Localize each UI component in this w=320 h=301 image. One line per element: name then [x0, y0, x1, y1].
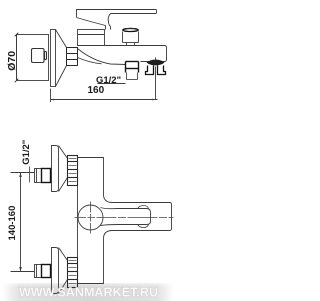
dimension Ø70 arrowheads [15, 33, 19, 83]
union nut (side) [67, 48, 78, 66]
dimension 140-160 [11, 173, 35, 272]
lens detail bottom [138, 225, 149, 228]
lever handle (side) [77, 10, 157, 30]
hose line [155, 67, 157, 100]
diverter knob on body [123, 28, 139, 45]
extension line to G1/2 label [29, 167, 31, 183]
lever housing outer (front) [104, 195, 172, 239]
top union cone [59, 146, 68, 192]
centerline horizontal [75, 217, 174, 219]
top union ribbed nut [68, 156, 78, 186]
watermark band background [2, 283, 174, 301]
lever inner shape (front) [101, 208, 151, 226]
bottom union cone [59, 248, 68, 294]
dimension Ø70 line with arrows [16, 35, 18, 81]
shower outlet stub G1/2 [126, 62, 139, 73]
escutcheon face plate (side) [51, 30, 56, 87]
top union thread block [35, 169, 51, 183]
cone from plate to nut [56, 30, 67, 87]
lens detail top [138, 206, 149, 209]
inlet square on escutcheon [32, 49, 47, 63]
hose coupling lens [147, 60, 165, 66]
svg-text:G1/2": G1/2" [21, 140, 32, 165]
bottom union ribbed nut [68, 258, 78, 288]
handle boss circle [78, 205, 103, 230]
svg-text:160: 160 [88, 85, 105, 96]
bottom union thread block [35, 265, 51, 278]
svg-text:WWW.SANMARKET.RU: WWW.SANMARKET.RU [19, 286, 158, 300]
mixer body (front) [78, 158, 104, 284]
svg-text:140-160: 140-160 [7, 206, 18, 241]
top union escutcheon plate [52, 146, 59, 192]
dimension 160 [51, 89, 158, 103]
cartridge dome (side) [78, 30, 105, 46]
centerline vertical [90, 202, 92, 234]
svg-text:G1/2": G1/2" [96, 75, 121, 86]
hose coupling nut [146, 66, 166, 75]
bottom union escutcheon plate [52, 248, 59, 294]
escutcheon box (side) [17, 35, 49, 81]
mixer body (side) [78, 46, 167, 65]
